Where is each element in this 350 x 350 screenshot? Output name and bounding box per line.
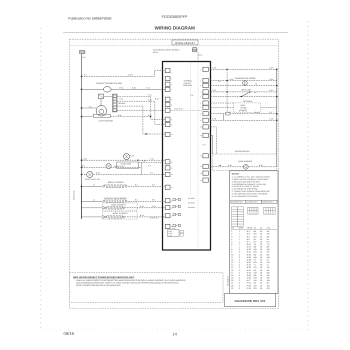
svg-text:2: 2 xyxy=(239,253,240,256)
svg-text:13: 13 xyxy=(200,166,202,168)
svg-text:N-36: N-36 xyxy=(118,114,122,117)
svg-text:16: 16 xyxy=(260,251,262,254)
staircase risers to lower pins xyxy=(117,96,165,119)
svg-text:B-36: B-36 xyxy=(247,274,251,277)
oven light lamp 2 xyxy=(82,166,142,168)
svg-text:1: 1 xyxy=(231,230,232,233)
svg-text:2: 2 xyxy=(239,251,240,254)
wire row B-35 xyxy=(211,68,277,70)
svg-text:P-30: P-30 xyxy=(228,164,232,167)
perforation line top xyxy=(63,31,287,34)
internal dashed bus xyxy=(197,62,199,251)
connector 1 pin grid xyxy=(232,207,244,227)
svg-text:BROWN: BROWN xyxy=(118,102,126,105)
svg-text:3: 3 xyxy=(239,266,240,269)
right pin column xyxy=(203,67,208,182)
svg-text:CONVECTION ELEMENT: CONVECTION ELEMENT xyxy=(104,197,128,200)
latch connector strip xyxy=(113,94,118,112)
svg-text:3: 3 xyxy=(239,271,240,274)
wire from J1 down to board xyxy=(197,52,199,62)
svg-text:YL: YL xyxy=(254,264,256,267)
oven lamp assembly box xyxy=(116,162,138,168)
svg-text:BROIL ELEMENT: BROIL ELEMENT xyxy=(108,181,125,184)
svg-text:16: 16 xyxy=(260,256,262,259)
svg-text:P-10: P-10 xyxy=(247,282,251,285)
svg-text:B-24: B-24 xyxy=(140,205,144,208)
svg-text:2: 2 xyxy=(239,248,240,251)
svg-text:P-5: P-5 xyxy=(152,199,155,202)
svg-text:DOOR LIGHT SW: DOOR LIGHT SW xyxy=(85,178,100,181)
svg-text:12: 12 xyxy=(231,258,233,261)
svg-text:18: 18 xyxy=(260,240,262,243)
internal label cluster xyxy=(188,197,196,209)
svg-text:18: 18 xyxy=(254,91,256,94)
svg-text:Publication No 5995676266: Publication No 5995676266 xyxy=(68,16,111,20)
second element R4 in dashed box xyxy=(102,212,137,220)
diagram dashed border xyxy=(70,39,279,308)
connector 2 pin grid xyxy=(248,207,258,214)
wire table rows xyxy=(231,230,270,290)
svg-text:N-36: N-36 xyxy=(247,277,251,280)
svg-text:B-31: B-31 xyxy=(247,264,251,267)
svg-text:B-25 P-25: B-25 P-25 xyxy=(175,108,183,111)
svg-text:9: 9 xyxy=(231,251,232,254)
svg-text:WIRING DIAGRAM: WIRING DIAGRAM xyxy=(155,25,195,30)
svg-text:SEE NOTE 9: SEE NOTE 9 xyxy=(227,276,230,286)
svg-text:AND DANGEROUS OPERATION. VERIF: AND DANGEROUS OPERATION. VERIFY ALL WIRE… xyxy=(76,282,179,285)
svg-text:18: 18 xyxy=(260,269,262,272)
svg-text:B-28: B-28 xyxy=(247,258,251,261)
svg-text:B-7: B-7 xyxy=(247,240,250,243)
svg-text:16: 16 xyxy=(171,207,173,209)
svg-text:B-24: B-24 xyxy=(247,251,251,254)
crimp connector arrows xyxy=(102,206,105,209)
svg-text:(EOC): (EOC) xyxy=(153,51,158,54)
svg-text:7: 7 xyxy=(231,246,232,249)
svg-text:15: 15 xyxy=(171,200,173,202)
svg-text:18: 18 xyxy=(260,282,262,285)
svg-text:B-36: B-36 xyxy=(96,172,100,175)
relay contacts K1..K4 inside board xyxy=(173,198,181,226)
svg-text:B-1: B-1 xyxy=(89,105,92,108)
svg-text:18: 18 xyxy=(260,264,262,267)
svg-text:18: 18 xyxy=(260,233,262,236)
svg-text:3: 3 xyxy=(231,235,232,238)
svg-text:10: 10 xyxy=(200,127,202,129)
svg-text:18: 18 xyxy=(260,287,262,290)
svg-text:B-5: B-5 xyxy=(135,199,138,202)
svg-text:P-14: P-14 xyxy=(148,94,152,97)
svg-text:B-13: B-13 xyxy=(247,243,251,246)
svg-text:P-4: P-4 xyxy=(152,184,155,187)
bake element R3 in dashed box xyxy=(102,203,137,210)
service note box xyxy=(70,273,223,303)
svg-text:P-35: P-35 xyxy=(212,67,216,70)
svg-text:16: 16 xyxy=(260,279,262,282)
svg-text:15: 15 xyxy=(231,266,233,269)
svg-text:13: 13 xyxy=(231,261,233,264)
svg-text:BAKE ELEMENT: BAKE ELEMENT xyxy=(111,203,126,206)
svg-text:18: 18 xyxy=(260,266,262,269)
svg-text:B-33: B-33 xyxy=(270,78,274,81)
svg-text:B-31: B-31 xyxy=(270,89,274,92)
svg-text:B-34: B-34 xyxy=(255,111,259,114)
svg-text:18: 18 xyxy=(255,83,257,86)
svg-text:B-7: B-7 xyxy=(270,111,273,114)
svg-text:9- ALL GROUNDS TO CHASSIS: 9- ALL GROUNDS TO CHASSIS xyxy=(232,195,259,198)
svg-text:B-5: B-5 xyxy=(247,238,250,241)
svg-text:17: 17 xyxy=(171,215,173,217)
op board: electronic oven control outline U1 xyxy=(163,62,211,251)
svg-text:B-35: B-35 xyxy=(247,271,251,274)
wire to board xyxy=(139,161,163,163)
svg-text:PROBE: PROBE xyxy=(241,107,248,110)
svg-text:19: 19 xyxy=(231,277,233,280)
svg-text:14: 14 xyxy=(171,187,173,189)
connector 3 pin grid xyxy=(264,207,275,214)
svg-text:LATCH MOTOR: LATCH MOTOR xyxy=(98,119,113,122)
svg-text:18: 18 xyxy=(260,248,262,251)
svg-text:6: 6 xyxy=(231,243,232,246)
svg-text:FGGS3065PFP: FGGS3065PFP xyxy=(162,15,188,19)
svg-text:OPTIONAL: OPTIONAL xyxy=(243,100,253,103)
svg-text:B-3: B-3 xyxy=(82,165,85,168)
svg-text:16 RD: 16 RD xyxy=(128,74,134,77)
svg-text:B-33: B-33 xyxy=(247,266,251,269)
connector J1 xyxy=(192,48,197,52)
svg-text:11: 11 xyxy=(231,256,233,259)
oven circuit label box xyxy=(172,40,198,45)
svg-text:HIGH LIMIT: HIGH LIMIT xyxy=(241,89,252,92)
latch cam switch block xyxy=(98,94,103,99)
svg-text:B-26 P-27: B-26 P-27 xyxy=(150,216,158,219)
svg-text:22: 22 xyxy=(231,284,233,287)
svg-text:2: 2 xyxy=(239,264,240,267)
svg-text:BAKE BURNER: BAKE BURNER xyxy=(239,160,253,163)
svg-text:BL: BL xyxy=(254,238,256,241)
svg-text:BL: BL xyxy=(267,238,269,241)
svg-text:16: 16 xyxy=(260,253,262,256)
svg-text:3: 3 xyxy=(239,274,240,277)
drawing number box xyxy=(225,293,276,306)
svg-text:8: 8 xyxy=(231,248,232,251)
svg-text:P-30: P-30 xyxy=(247,287,251,290)
svg-text:11: 11 xyxy=(171,162,173,164)
svg-text:1: 1 xyxy=(239,230,240,233)
svg-text:16: 16 xyxy=(260,238,262,241)
svg-text:17: 17 xyxy=(231,271,233,274)
svg-text:UNPLUG/DISCONNECT POWER BEFORE: UNPLUG/DISCONNECT POWER BEFORE SERVICING… xyxy=(73,276,135,279)
svg-text:B-28: B-28 xyxy=(270,118,274,121)
svg-text:P-36: P-36 xyxy=(142,160,146,163)
svg-text:3: 3 xyxy=(239,277,240,280)
svg-text:18: 18 xyxy=(260,243,262,246)
svg-text:18: 18 xyxy=(260,274,262,277)
svg-text:16: 16 xyxy=(93,184,95,187)
latch wires xyxy=(104,95,113,97)
svg-text:16: 16 xyxy=(260,235,262,238)
svg-text:P-28: P-28 xyxy=(212,118,216,121)
svg-text:P-36: P-36 xyxy=(247,284,251,287)
svg-text:2: 2 xyxy=(239,261,240,264)
svg-text:12: 12 xyxy=(171,168,173,170)
svg-text:P-36: P-36 xyxy=(150,157,154,160)
svg-text:1: 1 xyxy=(239,238,240,241)
svg-text:B-1: B-1 xyxy=(247,230,250,233)
wire from pin to spark module xyxy=(211,134,213,136)
svg-text:14: 14 xyxy=(172,331,177,336)
power connector plug xyxy=(79,50,85,53)
wire row to spark bus xyxy=(211,119,277,121)
connector header row xyxy=(231,200,277,203)
svg-text:P-6: P-6 xyxy=(203,144,206,147)
svg-text:P-33: P-33 xyxy=(230,78,234,81)
svg-text:SPARK MODULE: SPARK MODULE xyxy=(235,150,251,153)
svg-text:18: 18 xyxy=(171,226,173,228)
svg-text:1: 1 xyxy=(239,235,240,238)
svg-text:B-30: B-30 xyxy=(259,164,263,167)
svg-text:09/16: 09/16 xyxy=(64,331,75,336)
latch motor M2 xyxy=(96,106,107,117)
svg-text:YL: YL xyxy=(267,264,269,267)
oven lamp 1 xyxy=(82,159,166,161)
svg-text:3: 3 xyxy=(239,282,240,285)
svg-text:B-34: B-34 xyxy=(247,269,251,272)
svg-text:B-25: B-25 xyxy=(247,253,251,256)
svg-text:B-35: B-35 xyxy=(270,67,274,70)
svg-text:B-4: B-4 xyxy=(135,184,138,187)
svg-text:OVEN LIGHT: OVEN LIGHT xyxy=(114,165,126,168)
svg-text:16: 16 xyxy=(231,269,233,272)
svg-text:P-2: P-2 xyxy=(150,172,153,175)
svg-text:18: 18 xyxy=(231,274,233,277)
svg-text:OVEN CIRCUIT: OVEN CIRCUIT xyxy=(175,41,195,45)
svg-text:B-26: B-26 xyxy=(140,214,144,217)
svg-text:18: 18 xyxy=(260,258,262,261)
svg-text:TEMPERATURE PROBE: TEMPERATURE PROBE xyxy=(234,77,256,80)
high limit switch S1 loop xyxy=(211,91,277,93)
svg-text:P-31: P-31 xyxy=(212,89,216,92)
svg-text:P-7: P-7 xyxy=(229,111,232,114)
svg-text:13: 13 xyxy=(171,174,173,176)
svg-text:5: 5 xyxy=(231,240,232,243)
svg-text:11: 11 xyxy=(200,135,202,137)
svg-text:2: 2 xyxy=(239,258,240,261)
svg-text:B-26: B-26 xyxy=(247,256,251,259)
door light switch lamp xyxy=(82,173,166,175)
junction dots on bus xyxy=(81,76,83,188)
fold mark bottom xyxy=(42,329,308,331)
mid distribution bus xyxy=(226,69,228,113)
svg-text:P-16: P-16 xyxy=(148,114,152,117)
extra wire gauge labels xyxy=(93,74,256,209)
svg-text:14: 14 xyxy=(231,264,233,267)
svg-text:DG020909B REV 901: DG020909B REV 901 xyxy=(235,299,266,303)
svg-text:B-16: B-16 xyxy=(199,54,203,57)
svg-text:3: 3 xyxy=(239,287,240,290)
svg-text:14: 14 xyxy=(200,173,202,175)
svg-text:LABEL ALL WIRES PRIOR TO DISCO: LABEL ALL WIRES PRIOR TO DISCONNECTION W… xyxy=(76,279,186,282)
svg-text:3: 3 xyxy=(239,279,240,282)
svg-text:3: 3 xyxy=(239,284,240,287)
svg-text:P-8: P-8 xyxy=(191,94,194,97)
svg-text:4: 4 xyxy=(231,238,232,241)
svg-text:1: 1 xyxy=(239,233,240,236)
svg-text:18: 18 xyxy=(219,164,221,167)
svg-text:18: 18 xyxy=(260,261,262,264)
svg-text:23: 23 xyxy=(231,287,233,290)
svg-text:BLACK 16: BLACK 16 xyxy=(73,191,76,200)
svg-text:B-4: B-4 xyxy=(247,235,250,238)
svg-text:18: 18 xyxy=(260,284,262,287)
svg-text:P-24: P-24 xyxy=(152,205,156,208)
svg-text:B-36: B-36 xyxy=(132,86,136,89)
svg-text:VERIFY PROPER OPERATION AFTER: VERIFY PROPER OPERATION AFTER SERVICING. xyxy=(76,284,121,287)
svg-text:NOTES: NOTES xyxy=(232,172,240,175)
svg-text:18: 18 xyxy=(260,271,262,274)
svg-text:CONVECTION MOTOR FAN: CONVECTION MOTOR FAN xyxy=(96,82,122,85)
neutral bus wire xyxy=(81,54,83,219)
svg-text:BREAKER: BREAKER xyxy=(184,84,193,87)
svg-text:N-36: N-36 xyxy=(83,157,87,160)
divider dashed line xyxy=(70,45,279,47)
svg-text:18: 18 xyxy=(218,80,220,83)
svg-text:3: 3 xyxy=(239,269,240,272)
svg-text:B-30: B-30 xyxy=(247,261,251,264)
svg-text:B-16: B-16 xyxy=(247,248,251,251)
svg-text:1: 1 xyxy=(239,243,240,246)
right return bus xyxy=(276,69,278,167)
wire row P-7 xyxy=(211,113,277,115)
svg-text:B-3: B-3 xyxy=(247,233,250,236)
svg-text:2: 2 xyxy=(239,256,240,259)
bus to elements branch xyxy=(81,186,83,219)
svg-text:P-13: P-13 xyxy=(120,86,124,89)
svg-text:BROIL ELEMENT: BROIL ELEMENT xyxy=(113,212,129,215)
svg-text:P-15: P-15 xyxy=(148,98,152,101)
svg-text:1: 1 xyxy=(239,246,240,249)
svg-text:B-16: B-16 xyxy=(155,98,159,101)
svg-text:21: 21 xyxy=(231,282,233,285)
svg-text:B-36: B-36 xyxy=(130,155,134,158)
left pin column xyxy=(165,69,170,229)
svg-text:10: 10 xyxy=(171,134,173,136)
svg-text:12: 12 xyxy=(200,156,202,158)
svg-text:B-14: B-14 xyxy=(247,246,251,249)
internal board wire verticals xyxy=(190,63,192,196)
svg-text:18: 18 xyxy=(260,277,262,280)
svg-text:2: 2 xyxy=(231,233,232,236)
fold mark left xyxy=(40,28,42,330)
svg-text:10: 10 xyxy=(231,253,233,256)
svg-text:P-13: P-13 xyxy=(146,87,150,90)
svg-text:18: 18 xyxy=(260,230,262,233)
svg-text:P-3: P-3 xyxy=(148,165,151,168)
svg-text:15: 15 xyxy=(200,180,202,182)
svg-text:18: 18 xyxy=(260,246,262,249)
svg-text:1: 1 xyxy=(239,240,240,243)
fold mark right xyxy=(307,21,309,330)
svg-text:20: 20 xyxy=(231,279,233,282)
wire table header xyxy=(231,227,271,230)
svg-text:16: 16 xyxy=(93,199,95,202)
svg-text:B-14: B-14 xyxy=(120,98,124,101)
